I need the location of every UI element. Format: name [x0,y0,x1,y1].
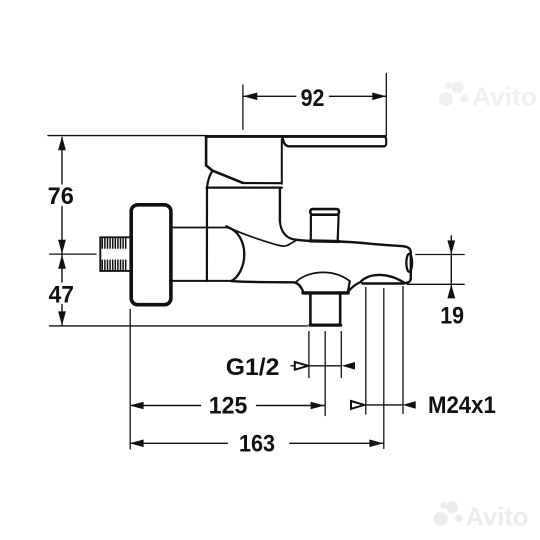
diverter knob right side [337,216,340,240]
dimension 76-47 vertical line [61,138,63,326]
dimension G1/2 left arrow [295,362,308,370]
extension line outlet right [340,332,342,378]
watermark avito logo top right [439,81,468,106]
thread hatch bottom [102,260,125,270]
diverter boss right side [348,281,350,292]
axis tick line [50,253,96,255]
dimension 76 top arrow [58,136,66,150]
shower outlet pipe bottom thick [310,324,341,327]
diverter knob rim line [312,214,339,216]
handle lever blade tip [384,137,386,147]
svg-text:92: 92 [301,85,325,112]
body top edge under knob thick [310,239,339,243]
dimension 76 top reference line [48,135,206,137]
spout aerator lens bottom [363,282,404,285]
handle cap left edge [205,137,208,165]
svg-text:163: 163 [239,431,275,458]
body shoulder s-curve [226,226,296,246]
diverter boss dome [297,272,350,281]
extension line spout m24 right [402,287,404,414]
diverter knob left side [310,216,312,240]
dimension 163 line [130,442,383,444]
svg-text:M24x1: M24x1 [428,392,496,419]
dimension 125 line [130,405,324,407]
dimension 19 bottom arrow [447,284,455,298]
dimension 76 bottom arrow [58,240,66,254]
dimension 47 bottom arrow [58,311,66,325]
cartridge left edge [207,171,212,281]
dimension 19 bottom tick [407,283,464,285]
dimension 47 bottom reference line [50,325,308,327]
threaded nipple outline [100,237,129,271]
spout aerator lens top [362,275,405,283]
extension line wall plane [129,310,131,450]
shower outlet pipe [310,295,340,325]
svg-text:76: 76 [48,183,74,210]
extension line outlet left [308,332,310,378]
body left cap arc [229,228,245,281]
dimension 92 line [243,95,386,97]
thread hatch top [102,239,125,249]
svg-text:125: 125 [209,392,248,419]
dimension 92 right extension line [385,74,387,137]
boss bottom bar [303,291,348,294]
dimension 125 right arrow [311,402,325,410]
body bottom edge left [231,281,303,292]
svg-text:19: 19 [440,302,464,329]
extension line spout m24 left [365,288,367,415]
dimension 47 top arrow [58,255,66,269]
aerator end ellipse [406,254,412,272]
underside rise to spout [348,282,361,292]
svg-text:Avito: Avito [472,82,537,112]
dimension 163 left arrow [130,440,144,448]
dimension G1/2 line [291,365,342,367]
handle cap bevel [206,165,243,182]
dimension M24x1 left arrow [351,401,364,409]
handle lever blade underside [283,139,384,147]
dimension 92 left extension line [242,85,244,129]
dimension 125 left arrow [130,402,144,410]
escutcheon flange [131,205,171,305]
watermark avito logo bottom right [434,501,463,526]
svg-text:47: 47 [49,281,74,308]
dimension M24x1 line [365,404,403,406]
dimension 19 top tick [416,254,464,256]
connector top edge [173,227,229,229]
svg-text:G1/2: G1/2 [226,354,280,381]
dimension G1/2 right arrow [342,362,355,370]
connector bottom edge [173,280,232,282]
handle lever top edge [206,135,384,138]
handle cap right edge [281,139,283,184]
dimension 92 right arrow [372,93,386,101]
cartridge to body fillet [280,221,294,240]
handle cap bottom edge [243,182,282,184]
cartridge top edge [207,187,282,189]
dimension 163 right arrow [369,440,383,448]
dimension M24x1 right arrow [403,401,416,409]
extension line outlet center [324,332,326,416]
body top edge and right cap [294,239,411,283]
dimension 19 top arrow [447,240,455,254]
cartridge right edge [279,188,281,221]
extension line spout center [383,289,385,449]
diverter knob cap [310,209,339,215]
dimension 92 left arrow [243,93,257,101]
dimension 19 vertical line [450,236,452,297]
svg-text:Avito: Avito [466,502,529,532]
